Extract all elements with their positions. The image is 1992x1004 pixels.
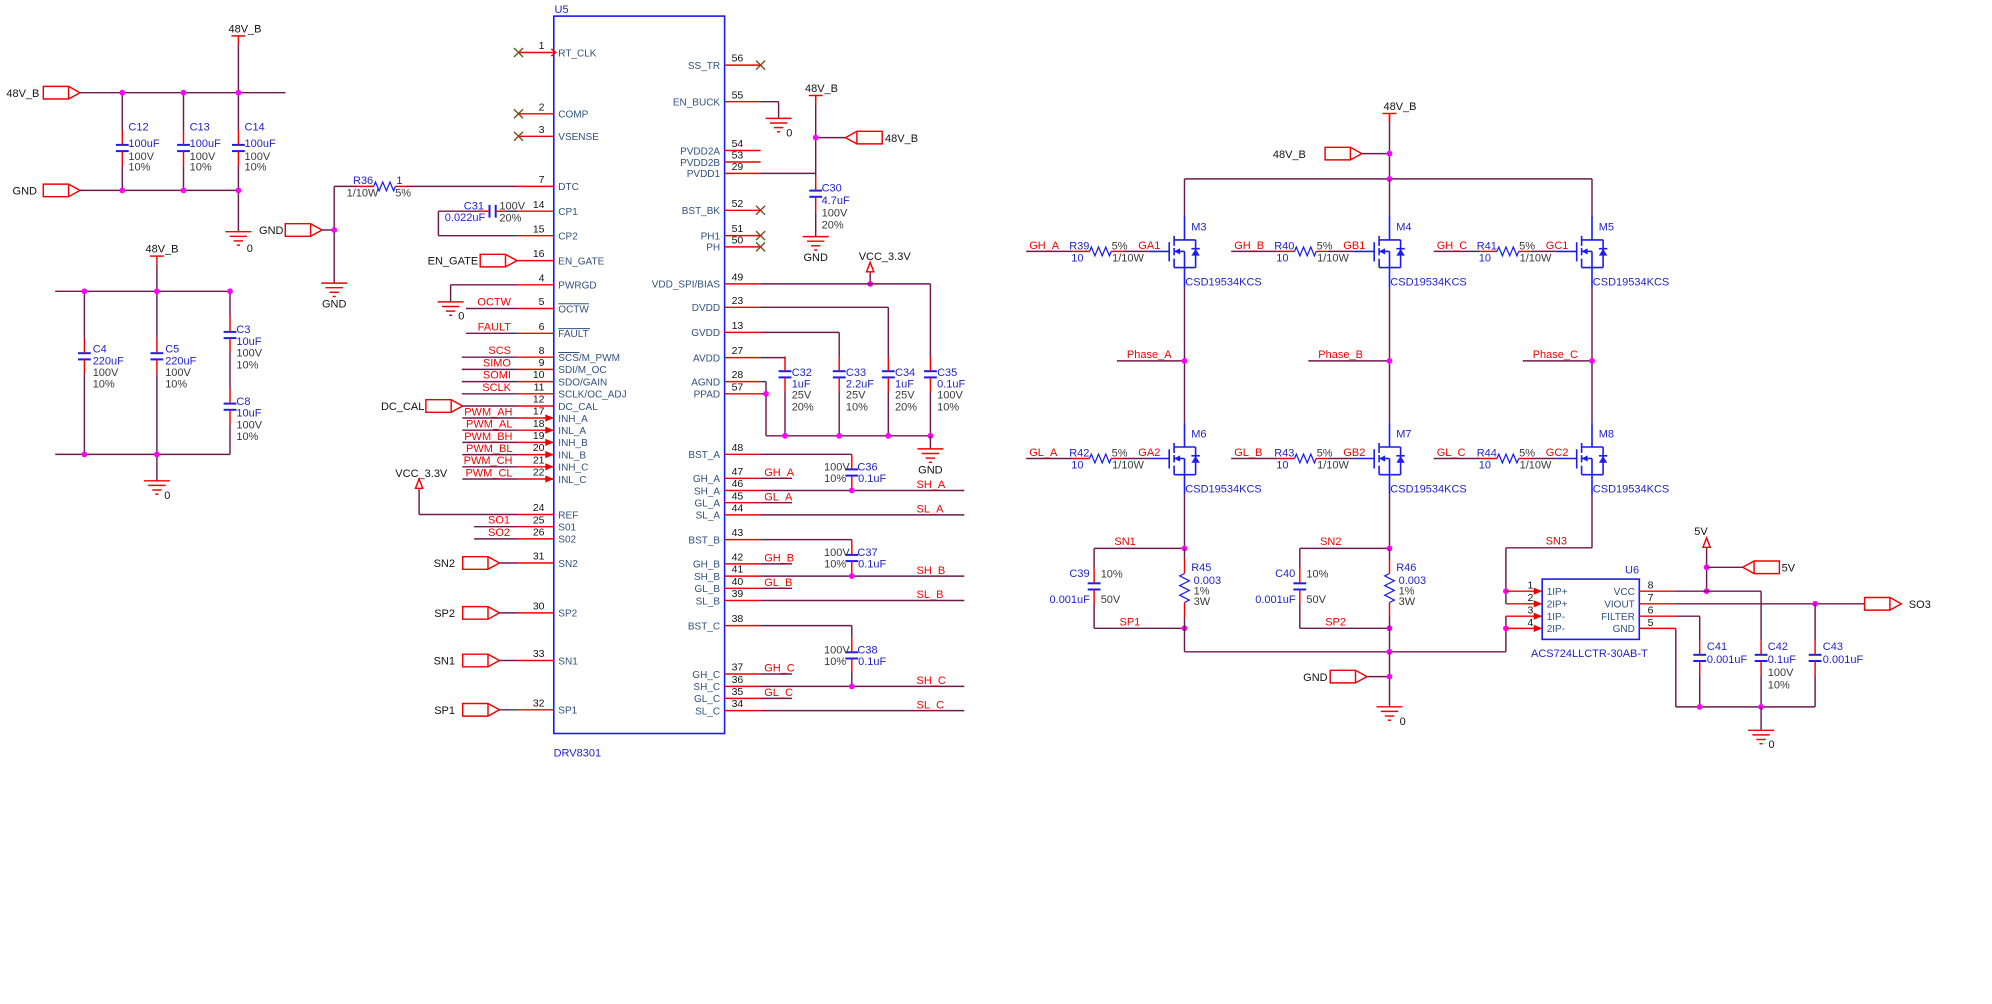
U5 pin 43 BST_B <box>725 539 761 541</box>
junction <box>181 90 187 96</box>
svg-text:C5: C5 <box>165 344 179 356</box>
junction cap/SH <box>849 573 855 579</box>
svg-text:BST_C: BST_C <box>688 621 720 632</box>
wire BST to cap <box>761 539 852 541</box>
svg-text:CSD19534KCS: CSD19534KCS <box>1185 277 1261 289</box>
svg-text:SCS: SCS <box>488 345 511 357</box>
wire Phase_B stub <box>1308 360 1389 362</box>
svg-text:GND: GND <box>1613 624 1635 635</box>
svg-text:R44: R44 <box>1477 448 1497 460</box>
svg-text:C41: C41 <box>1707 641 1727 653</box>
wire net stub PWM_AH <box>462 417 518 419</box>
ground 0 below C14 <box>225 232 251 245</box>
svg-text:3W: 3W <box>1194 596 1211 608</box>
capacitor C31 <box>490 205 496 218</box>
transistor M6 <box>1149 423 1200 495</box>
svg-text:0.001uF: 0.001uF <box>1255 594 1296 606</box>
wire bottom bus right <box>1676 706 1815 708</box>
svg-text:GB1: GB1 <box>1343 240 1365 252</box>
wire loop down <box>437 211 439 236</box>
svg-text:PWM_CH: PWM_CH <box>464 455 513 467</box>
wire bottom bus (GND) <box>80 189 238 191</box>
svg-text:SP2: SP2 <box>558 609 577 620</box>
svg-text:INL_A: INL_A <box>558 426 586 437</box>
svg-text:1/10W: 1/10W <box>347 187 379 199</box>
svg-text:Phase_A: Phase_A <box>1127 349 1172 361</box>
U5 pin 2 COMP <box>518 113 554 115</box>
svg-text:100V: 100V <box>165 367 191 379</box>
wire GH_A stub <box>761 477 793 479</box>
wire SN1 port <box>499 660 518 662</box>
svg-text:CSD19534KCS: CSD19534KCS <box>1185 484 1261 496</box>
svg-text:PVDD2A: PVDD2A <box>680 146 720 157</box>
junction <box>1182 625 1188 631</box>
U5 pin 40 GL_B <box>725 587 761 589</box>
wire drain lower FET <box>1591 361 1593 423</box>
svg-text:SP2: SP2 <box>1325 617 1346 629</box>
junction <box>1758 704 1764 710</box>
svg-text:50V: 50V <box>1306 594 1326 606</box>
svg-text:51: 51 <box>732 223 744 235</box>
wire SL_A <box>761 514 965 516</box>
svg-text:38: 38 <box>732 613 744 625</box>
ground 0 below block2 <box>144 481 170 494</box>
svg-text:DC_CAL: DC_CAL <box>381 401 424 413</box>
svg-text:25: 25 <box>533 514 545 526</box>
svg-text:R43: R43 <box>1274 448 1294 460</box>
wire 48V_B down <box>1389 114 1391 123</box>
wire loop to CP2 <box>438 235 518 237</box>
svg-text:GH_A: GH_A <box>764 467 795 479</box>
wire SN1 row <box>1094 547 1184 549</box>
svg-text:1/10W: 1/10W <box>1520 460 1552 472</box>
junction U6 pin4 <box>1503 626 1509 632</box>
svg-text:1: 1 <box>539 40 545 52</box>
svg-text:10%: 10% <box>1101 569 1123 581</box>
svg-text:GA2: GA2 <box>1138 447 1160 459</box>
svg-text:GL_B: GL_B <box>764 577 792 589</box>
wire GH_C to R41 <box>1434 250 1481 252</box>
U5 pin 42 GH_B <box>725 563 761 565</box>
svg-text:47: 47 <box>732 466 744 478</box>
wire SN2 row <box>1300 547 1390 549</box>
svg-text:SH_C: SH_C <box>917 675 946 687</box>
transistor M5 <box>1557 216 1608 288</box>
svg-text:S02: S02 <box>558 535 576 546</box>
svg-text:PWM_BH: PWM_BH <box>464 431 512 443</box>
svg-text:C12: C12 <box>128 122 148 134</box>
resistor R36 <box>357 185 374 187</box>
wire net stub SIMO <box>462 368 518 370</box>
svg-text:100V: 100V <box>937 390 963 402</box>
wire net stub PWM_AL <box>462 429 518 431</box>
U5 pin 11 SCLK/OC_ADJ <box>518 393 554 395</box>
svg-text:5%: 5% <box>1519 240 1535 252</box>
wire 5V down <box>1706 549 1708 591</box>
svg-text:1/10W: 1/10W <box>1112 460 1144 472</box>
svg-text:100V: 100V <box>499 201 525 213</box>
svg-text:Phase_C: Phase_C <box>1533 349 1578 361</box>
wire R40 to gate <box>1328 250 1354 252</box>
svg-text:9: 9 <box>539 357 545 369</box>
svg-text:R39: R39 <box>1069 240 1089 252</box>
svg-text:BST_A: BST_A <box>688 450 720 461</box>
svg-text:10%: 10% <box>245 162 267 174</box>
wire C5 to ground <box>156 454 158 480</box>
U5 pin 45 GL_A <box>725 502 761 504</box>
wire top bus block2 <box>55 290 230 292</box>
svg-text:SL_B: SL_B <box>917 589 944 601</box>
svg-text:DTC: DTC <box>558 182 579 193</box>
svg-text:SO2: SO2 <box>488 527 510 539</box>
svg-text:48V_B: 48V_B <box>6 88 39 100</box>
wire M8 source to SN3 corner <box>1591 495 1593 548</box>
svg-text:0.1uF: 0.1uF <box>858 473 886 485</box>
wire C14 to ground <box>237 190 239 231</box>
svg-text:SP1: SP1 <box>1120 617 1141 629</box>
svg-text:DRV8301: DRV8301 <box>554 748 602 760</box>
op-amp U5 body (DRV8301) <box>554 16 725 733</box>
svg-text:54: 54 <box>732 138 744 150</box>
capacitor C38 <box>845 652 858 658</box>
svg-text:SL_A: SL_A <box>696 511 721 522</box>
junction <box>782 433 788 439</box>
svg-text:33: 33 <box>533 648 545 660</box>
svg-text:4: 4 <box>539 272 545 284</box>
svg-text:0: 0 <box>1400 716 1406 728</box>
U5 pin 4 PWRGD <box>518 284 554 286</box>
capacitor C42 <box>1755 655 1768 661</box>
ground GND below C30 <box>803 237 829 250</box>
capacitor C32 <box>784 356 786 359</box>
svg-text:SN1: SN1 <box>1114 536 1135 548</box>
capacitor C40 <box>1293 583 1306 589</box>
wire to R36 <box>334 185 357 187</box>
U5 pin 10 SDO/GAIN <box>518 381 554 383</box>
svg-text:R45: R45 <box>1191 562 1211 574</box>
junction <box>236 188 242 194</box>
junction <box>154 288 160 294</box>
svg-text:55: 55 <box>732 89 744 101</box>
wire GL_A to R42 <box>1026 458 1073 460</box>
svg-text:10uF: 10uF <box>236 408 261 420</box>
svg-text:C37: C37 <box>857 547 877 559</box>
U5 pin 55 EN_BUCK <box>725 101 761 103</box>
wire GL_B to R43 <box>1231 458 1278 460</box>
U5 pin 12 DC_CAL <box>518 405 554 407</box>
svg-text:1/10W: 1/10W <box>1520 253 1552 265</box>
svg-text:48: 48 <box>732 442 744 454</box>
svg-text:M3: M3 <box>1191 221 1206 233</box>
svg-text:10uF: 10uF <box>236 336 261 348</box>
svg-text:GH_C: GH_C <box>1437 240 1468 252</box>
svg-text:0.1uF: 0.1uF <box>858 656 886 668</box>
svg-text:100V: 100V <box>824 461 850 473</box>
port 48V_B bridge <box>1325 147 1362 160</box>
U5 pin 37 GH_C <box>725 673 761 675</box>
svg-text:SO1: SO1 <box>488 515 510 527</box>
svg-text:GH_B: GH_B <box>693 560 721 571</box>
U5 pin 49 VDD_SPI/BIAS <box>725 283 761 285</box>
svg-text:16: 16 <box>533 248 545 260</box>
U5 pin 8 SCS/M_PWM <box>518 356 554 358</box>
svg-text:C40: C40 <box>1275 568 1295 580</box>
svg-text:FAULT: FAULT <box>478 321 512 333</box>
no-connect pin 51 <box>756 231 765 240</box>
svg-text:28: 28 <box>732 369 744 381</box>
wire EN_BUCK <box>761 101 779 103</box>
svg-text:PH1: PH1 <box>701 231 721 242</box>
wire DC_CAL <box>463 405 518 407</box>
svg-text:0.022uF: 0.022uF <box>445 212 486 224</box>
svg-text:50V: 50V <box>1101 594 1121 606</box>
svg-text:5V: 5V <box>1694 526 1708 538</box>
svg-text:SH_A: SH_A <box>694 486 720 497</box>
svg-text:SL_A: SL_A <box>917 504 945 516</box>
svg-text:20%: 20% <box>895 402 917 414</box>
wire SL_B <box>761 600 965 602</box>
svg-text:C13: C13 <box>190 122 210 134</box>
ground 0 output <box>1748 730 1774 743</box>
junction 48V_B node <box>813 135 819 141</box>
svg-text:AVDD: AVDD <box>693 353 720 364</box>
capacitor C3 <box>229 291 231 317</box>
svg-text:SIMO: SIMO <box>483 357 512 369</box>
wire R39 to gate <box>1123 250 1149 252</box>
junction VCC <box>867 281 873 287</box>
wire GND port <box>1367 676 1390 678</box>
resistor R44 <box>1480 458 1497 460</box>
svg-text:5%: 5% <box>395 188 411 200</box>
svg-text:PWM_CL: PWM_CL <box>465 467 512 479</box>
svg-text:30: 30 <box>533 601 545 613</box>
svg-text:SCLK: SCLK <box>482 382 511 394</box>
wire 48V_B down <box>815 96 817 105</box>
resistor R42 <box>1073 458 1090 460</box>
svg-text:SO3: SO3 <box>1909 599 1931 611</box>
svg-text:2: 2 <box>1528 592 1534 604</box>
svg-text:5%: 5% <box>1317 240 1333 252</box>
wire pin57 (PPAD) <box>761 393 766 395</box>
svg-text:BST_B: BST_B <box>688 535 720 546</box>
wire drain upper FET <box>1591 179 1593 216</box>
svg-text:0.1uF: 0.1uF <box>858 559 886 571</box>
svg-text:EN_GATE: EN_GATE <box>558 256 604 267</box>
svg-text:22: 22 <box>533 467 545 479</box>
U5 pin 35 GL_C <box>725 697 761 699</box>
svg-text:VCC: VCC <box>1614 587 1635 598</box>
wire node down to ground <box>333 230 335 283</box>
U6 pin 8 VCC <box>1639 590 1675 592</box>
junction <box>928 433 934 439</box>
wire net stub SCLK <box>462 393 518 395</box>
svg-text:50: 50 <box>732 235 744 247</box>
svg-text:10%: 10% <box>1306 569 1328 581</box>
junction <box>1387 358 1393 364</box>
wire bottom bus block2 <box>55 453 230 455</box>
svg-text:FAULT: FAULT <box>558 329 588 340</box>
svg-text:20%: 20% <box>822 219 844 231</box>
wire 48V_B flag to top bus <box>237 45 239 93</box>
svg-text:SDI/M_OC: SDI/M_OC <box>558 365 606 376</box>
svg-text:U5: U5 <box>555 4 569 16</box>
svg-text:15: 15 <box>533 223 545 235</box>
wire net stub SO2 <box>474 538 518 540</box>
port 48V_B right (left-pointing) <box>846 131 883 144</box>
svg-text:BST_BK: BST_BK <box>682 206 721 217</box>
port GND mid-left <box>285 224 322 237</box>
U5 pin 1 RT_CLK <box>518 52 554 54</box>
svg-text:52: 52 <box>732 198 744 210</box>
svg-text:INH_B: INH_B <box>558 438 588 449</box>
svg-text:25V: 25V <box>792 390 812 402</box>
capacitor C4 <box>83 291 85 338</box>
svg-text:1/10W: 1/10W <box>1317 460 1349 472</box>
svg-text:43: 43 <box>732 527 744 539</box>
wire SP2 row <box>1300 627 1390 629</box>
svg-text:VSENSE: VSENSE <box>558 132 599 143</box>
junction AGND/PPAD <box>763 391 769 397</box>
svg-text:SCLK/OC_ADJ: SCLK/OC_ADJ <box>558 390 626 401</box>
U5 pin 3 VSENSE <box>518 135 554 137</box>
svg-text:10%: 10% <box>236 359 258 371</box>
svg-text:SDO/GAIN: SDO/GAIN <box>558 377 607 388</box>
svg-text:SN2: SN2 <box>558 559 578 570</box>
wire pin13 (GVDD) <box>761 331 840 333</box>
wire GL_C stub <box>761 697 793 699</box>
U5 pin 41 SH_B <box>725 575 761 577</box>
U5 pin 19 INH_B <box>518 441 554 443</box>
svg-text:SH_B: SH_B <box>694 572 720 583</box>
svg-text:C34: C34 <box>895 367 915 379</box>
svg-text:42: 42 <box>732 552 744 564</box>
svg-text:AGND: AGND <box>691 377 720 388</box>
svg-text:1IP-: 1IP- <box>1547 612 1565 623</box>
junction <box>236 90 242 96</box>
svg-text:EN_GATE: EN_GATE <box>428 256 479 268</box>
svg-text:8: 8 <box>1648 580 1654 592</box>
wire VIOUT to SO3 <box>1676 603 1865 605</box>
svg-text:INH_A: INH_A <box>558 414 588 425</box>
svg-text:RT_CLK: RT_CLK <box>558 48 596 59</box>
ground 0 bridge <box>1377 707 1403 720</box>
svg-text:SH_A: SH_A <box>917 479 946 491</box>
svg-text:R46: R46 <box>1396 562 1416 574</box>
svg-text:37: 37 <box>732 662 744 674</box>
op-amp U6 body (ACS724) <box>1542 579 1639 639</box>
power flag 48V_B bridge <box>1383 113 1397 115</box>
svg-text:PH: PH <box>706 243 720 254</box>
svg-text:100uF: 100uF <box>128 138 159 150</box>
svg-text:57: 57 <box>732 381 744 393</box>
wire net stub PWM_CH <box>462 466 518 468</box>
svg-text:20%: 20% <box>792 402 814 414</box>
port SN1 <box>463 654 500 667</box>
svg-text:3: 3 <box>1528 605 1534 617</box>
svg-text:19: 19 <box>533 430 545 442</box>
no-connect pin 50 <box>756 242 765 251</box>
port 5V <box>1743 561 1780 574</box>
port GND bridge <box>1330 670 1367 683</box>
svg-text:5: 5 <box>1648 617 1654 629</box>
svg-text:0: 0 <box>458 311 464 323</box>
svg-text:8: 8 <box>539 345 545 357</box>
wire pin27 (AVDD) <box>761 357 785 359</box>
svg-text:CSD19534KCS: CSD19534KCS <box>1390 277 1466 289</box>
wire net stub PWM_BH <box>462 441 518 443</box>
svg-text:48V_B: 48V_B <box>145 244 178 256</box>
wire source upper FET to phase <box>1591 288 1593 361</box>
wire 5V port <box>1707 566 1743 568</box>
svg-text:1: 1 <box>1528 580 1534 592</box>
svg-text:GH_B: GH_B <box>764 553 794 565</box>
svg-text:M6: M6 <box>1191 429 1206 441</box>
wire M6 source to SN1 <box>1184 495 1186 549</box>
svg-text:SOMI: SOMI <box>483 370 511 382</box>
U5 pin 15 CP2 <box>518 235 554 237</box>
wire GL_B stub <box>761 587 793 589</box>
capacitor C5 <box>156 291 158 338</box>
svg-text:0.001uF: 0.001uF <box>1050 594 1091 606</box>
no-connect pin 52 <box>756 206 765 215</box>
wire VCC to C42 <box>1676 590 1762 592</box>
U5 pin 21 INH_C <box>518 466 554 468</box>
svg-text:48V_B: 48V_B <box>885 133 918 145</box>
svg-text:0: 0 <box>1769 739 1775 751</box>
svg-text:VCC_3.3V: VCC_3.3V <box>395 468 448 480</box>
svg-text:100uF: 100uF <box>190 138 221 150</box>
svg-text:PWRGD: PWRGD <box>558 281 596 292</box>
svg-text:SP1: SP1 <box>558 706 577 717</box>
svg-text:SL_C: SL_C <box>695 706 720 717</box>
power flag 48V_B above C5 <box>150 255 164 257</box>
svg-text:25V: 25V <box>895 390 915 402</box>
svg-text:GH_A: GH_A <box>1029 240 1060 252</box>
capacitor C33 <box>838 356 840 359</box>
port EN_GATE <box>480 254 517 267</box>
svg-text:DC_CAL: DC_CAL <box>558 402 598 413</box>
svg-text:1IP+: 1IP+ <box>1547 587 1568 598</box>
svg-text:2IP+: 2IP+ <box>1547 600 1568 611</box>
svg-text:10: 10 <box>533 369 545 381</box>
svg-text:INL_B: INL_B <box>558 450 586 461</box>
junction <box>1387 546 1393 552</box>
wire drain upper FET <box>1389 179 1391 216</box>
svg-text:10: 10 <box>1276 460 1288 472</box>
svg-text:10: 10 <box>1479 460 1491 472</box>
wire net stub OCTW <box>466 308 518 310</box>
svg-text:CSD19534KCS: CSD19534KCS <box>1593 484 1669 496</box>
wire GH_B stub <box>761 563 793 565</box>
wire pin23 (DVDD) <box>761 306 889 308</box>
svg-text:SS_TR: SS_TR <box>688 61 720 72</box>
svg-text:10%: 10% <box>236 431 258 443</box>
svg-text:SP2: SP2 <box>434 608 455 620</box>
svg-text:56: 56 <box>732 53 744 65</box>
U6 pin 7 VIOUT <box>1639 603 1675 605</box>
wire loop left <box>1093 548 1095 568</box>
svg-text:48V_B: 48V_B <box>228 23 261 35</box>
svg-text:10%: 10% <box>846 402 868 414</box>
svg-text:4.7uF: 4.7uF <box>822 195 850 207</box>
svg-text:GVDD: GVDD <box>691 328 720 339</box>
svg-text:100V: 100V <box>824 547 850 559</box>
wire top bus bridge <box>1185 178 1593 180</box>
U5 pin 39 SL_B <box>725 600 761 602</box>
svg-text:12: 12 <box>533 394 545 406</box>
svg-text:PVDD2B: PVDD2B <box>680 158 720 169</box>
svg-text:6: 6 <box>539 321 545 333</box>
